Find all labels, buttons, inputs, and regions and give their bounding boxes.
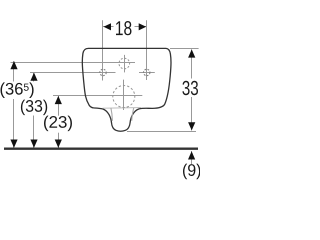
extension line top right for 33: [170, 48, 199, 50]
extension line for (33) / left hole crosshair: [30, 72, 116, 74]
down arrow 33 right: [188, 122, 195, 130]
floor line: [4, 148, 198, 150]
left mounting hole dashed circle: [100, 69, 106, 75]
label 33: [182, 81, 198, 95]
dimension line (36.5): [13, 61, 15, 148]
label (23): [44, 116, 72, 132]
label (33): [21, 100, 47, 116]
down arrow (23) at floor: [55, 140, 62, 148]
up arrow (36.5): [10, 61, 17, 69]
inner bowl line left: [111, 108, 113, 121]
bowl rim edge line: [103, 107, 142, 110]
dimension line (9): [191, 151, 193, 164]
extension line right of dim 18: [146, 20, 148, 80]
supply hole vertical crosshair: [124, 55, 126, 73]
supply hole dashed circle: [119, 58, 130, 69]
label 18: [116, 21, 131, 35]
dimension line 33 right: [191, 49, 193, 130]
outlet vertical crosshair: [123, 80, 125, 110]
outlet dashed circle: [113, 86, 135, 108]
up arrow (23): [55, 96, 62, 104]
right mounting hole horizontal crosshair: [139, 72, 155, 74]
white gap behind label 33: [181, 79, 200, 98]
white gap behind label (36 5): [0, 82, 35, 100]
dimension line 18: [103, 26, 147, 28]
up arrow (33): [30, 73, 37, 81]
right mounting hole dashed circle: [144, 69, 150, 75]
arrow right of dim 18: [139, 23, 147, 30]
extension line for (36.5) / supply hole crosshair: [11, 62, 136, 64]
label (36 5): [0, 82, 33, 98]
arrow left of dim 18: [104, 23, 112, 30]
label (9): [183, 164, 200, 180]
inner bowl line right: [132, 108, 134, 121]
dimension line (23): [58, 96, 60, 149]
white gap behind label 18: [114, 20, 135, 35]
up arrow 33 right: [188, 49, 195, 57]
down arrow (36.5) at floor: [10, 140, 17, 148]
toilet body outline: [82, 48, 171, 131]
extension line for (23) / outlet crosshair: [53, 95, 142, 97]
white gap behind label (33): [20, 98, 49, 116]
white gap behind label (23): [44, 116, 73, 133]
up arrow (9): [188, 151, 195, 159]
dimension line (33): [33, 73, 35, 149]
extension line bottom of outlet spigot: [127, 131, 196, 133]
extension line left of dim 18: [102, 20, 104, 80]
down arrow (33) at floor: [30, 140, 37, 148]
